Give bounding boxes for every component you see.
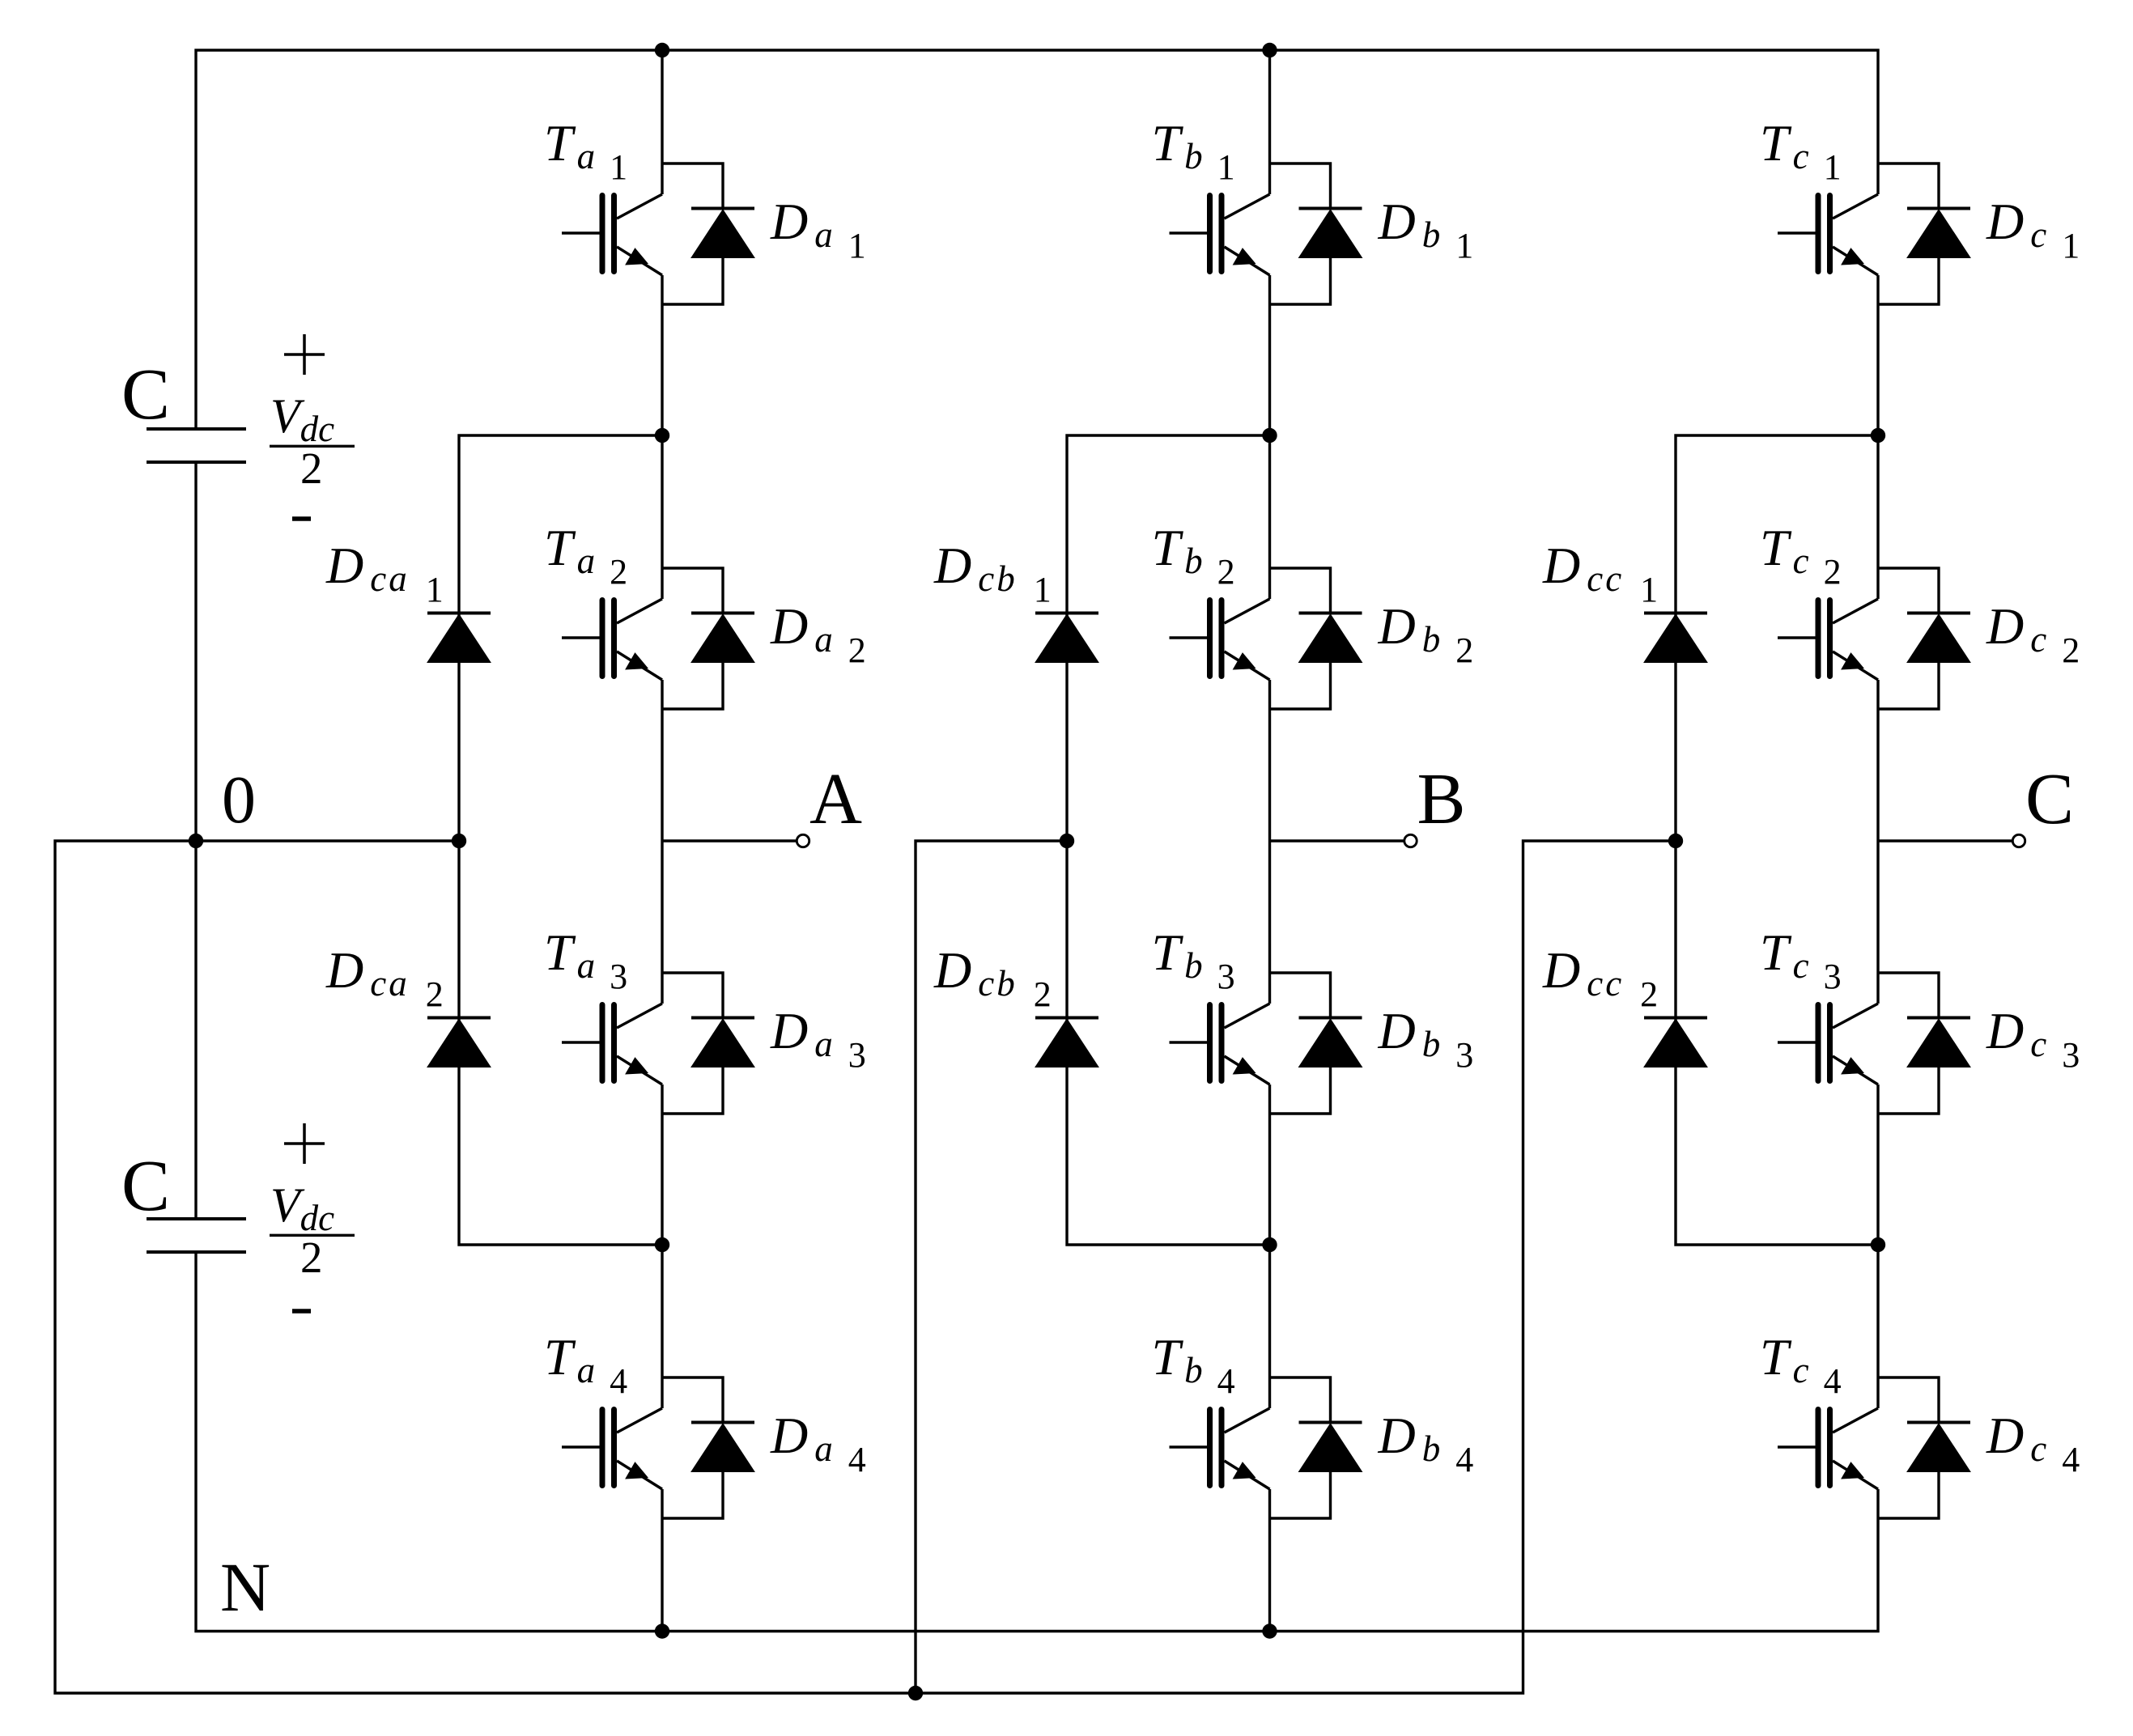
node: junction neutral stub / clamp c bbox=[1668, 834, 1683, 848]
transistor Tc1 (IGBT) bbox=[1778, 194, 1878, 275]
clamp diode Dca2 bbox=[427, 1018, 491, 1067]
label: minus sign (upper half voltage) bbox=[292, 516, 311, 521]
wire: antiparallel branch bottom Da2 bbox=[662, 663, 723, 710]
svg-text:2: 2 bbox=[300, 444, 323, 493]
wire: clamp branch phase c (to leg junctions) bbox=[1676, 435, 1878, 1245]
wire: negative DC bus (N rail with end risers) bbox=[196, 1252, 1878, 1632]
diode Db3 (antiparallel) bbox=[1299, 1018, 1362, 1067]
diode Dc2 (antiparallel) bbox=[1907, 613, 1970, 663]
wire: left bus between capacitors bbox=[194, 462, 197, 1219]
clamp diode Dcc1 bbox=[1644, 613, 1707, 663]
clamp diode Dcc2 bbox=[1644, 1018, 1707, 1067]
diode Dc4 (antiparallel) bbox=[1907, 1423, 1970, 1472]
wire: leg a Ta1 emitter to junction bbox=[661, 275, 663, 435]
label: plus sign (upper half voltage) bbox=[284, 334, 325, 375]
wire: antiparallel branch top Db2 bbox=[1270, 568, 1331, 613]
diode Da4 (antiparallel) bbox=[691, 1423, 754, 1472]
transistor Tb1 (IGBT) bbox=[1170, 194, 1270, 275]
transistor Tb4 (IGBT) bbox=[1170, 1408, 1270, 1489]
node: junction N rail / leg b bbox=[1262, 1624, 1277, 1638]
label: plus sign (lower half voltage) bbox=[284, 1123, 325, 1164]
svg-text:Dcb2: Dcb2 bbox=[933, 941, 1052, 1014]
svg-text:Db1: Db1 bbox=[1378, 193, 1474, 265]
capacitor C (lower) bbox=[147, 1219, 246, 1252]
diode Db1 (antiparallel) bbox=[1299, 209, 1362, 258]
svg-text:Ta1: Ta1 bbox=[544, 114, 627, 187]
svg-text:Dc3: Dc3 bbox=[1986, 1002, 2080, 1075]
svg-text:Dcc1: Dcc1 bbox=[1542, 537, 1658, 609]
wire: antiparallel branch top Da1 bbox=[662, 163, 723, 209]
transistor Ta2 (IGBT) bbox=[562, 599, 662, 680]
transistor Tc2 (IGBT) bbox=[1778, 599, 1878, 680]
terminal B (open circle) bbox=[1404, 834, 1417, 847]
svg-text:0: 0 bbox=[222, 762, 256, 838]
wire: leg a Ta3 emitter to junction bbox=[661, 1084, 663, 1245]
transistor Tc3 (IGBT) bbox=[1778, 1004, 1878, 1084]
wire: antiparallel branch bottom Db4 bbox=[1270, 1472, 1331, 1519]
wire: leg b junction to Tb4 bbox=[1268, 1245, 1271, 1408]
svg-text:Ta3: Ta3 bbox=[544, 923, 627, 996]
wire: leg b top rail to Tb1 bbox=[1268, 50, 1271, 194]
wire: positive DC bus (top rail with end drops) bbox=[196, 50, 1878, 429]
svg-text:Dca2: Dca2 bbox=[325, 941, 444, 1014]
diode Db2 (antiparallel) bbox=[1299, 613, 1362, 663]
transistor Tb3 (IGBT) bbox=[1170, 1004, 1270, 1084]
transistor Ta3 (IGBT) bbox=[562, 1004, 662, 1084]
svg-text:Ta2: Ta2 bbox=[544, 519, 627, 592]
svg-text:2: 2 bbox=[300, 1233, 323, 1282]
clamp diode Dca1 bbox=[427, 613, 491, 663]
wire: leg a top rail to Ta1 bbox=[661, 50, 663, 194]
wire: antiparallel branch bottom Db1 bbox=[1270, 258, 1331, 305]
diode Db4 (antiparallel) bbox=[1299, 1423, 1362, 1472]
wire: antiparallel branch top Dc1 bbox=[1878, 163, 1939, 209]
svg-text:Vdc: Vdc bbox=[270, 1178, 334, 1238]
wire: antiparallel branch top Da2 bbox=[662, 568, 723, 613]
wire: leg c Tc3 emitter to junction bbox=[1876, 1084, 1879, 1245]
wire: leg c Tc1 emitter to junction bbox=[1876, 275, 1879, 435]
node: junction top rail / leg b bbox=[1262, 43, 1277, 57]
svg-text:Ta4: Ta4 bbox=[544, 1328, 627, 1401]
diode Dc1 (antiparallel) bbox=[1907, 209, 1970, 258]
wire: leg b junction to Tb2 bbox=[1268, 435, 1271, 599]
node: junction neutral stub / clamp b bbox=[1060, 834, 1074, 848]
wire: antiparallel branch top Db3 bbox=[1270, 973, 1331, 1018]
svg-text:Tb4: Tb4 bbox=[1152, 1328, 1235, 1401]
wire: clamp branch phase b (to leg junctions) bbox=[1067, 435, 1270, 1245]
svg-text:Da1: Da1 bbox=[770, 193, 866, 265]
node: junction bottom neutral rail / riser b bbox=[908, 1686, 923, 1700]
wire: leg c junction to Tc2 bbox=[1876, 435, 1879, 599]
svg-text:A: A bbox=[809, 759, 862, 839]
terminal C (open circle) bbox=[2012, 834, 2025, 847]
wire: leg a junction to Ta2 bbox=[661, 435, 663, 599]
wire: antiparallel branch bottom Dc4 bbox=[1878, 1472, 1939, 1519]
wire: neutral bus 0 (mid rail, outer loop and riser to phase c clamp) bbox=[55, 841, 1676, 1693]
svg-text:C: C bbox=[121, 354, 170, 435]
node: junction top rail / leg a bbox=[655, 43, 669, 57]
svg-text:Dca1: Dca1 bbox=[325, 537, 444, 609]
wire: leg c junction to Tc4 bbox=[1876, 1245, 1879, 1408]
wire: leg a junction to Ta4 bbox=[661, 1245, 663, 1408]
wire: antiparallel branch top Dc2 bbox=[1878, 568, 1939, 613]
wire: antiparallel branch bottom Da3 bbox=[662, 1067, 723, 1114]
svg-text:Dcc2: Dcc2 bbox=[1542, 941, 1658, 1014]
clamp diode Dcb1 bbox=[1035, 613, 1098, 663]
svg-text:N: N bbox=[220, 1548, 270, 1626]
wire: leg b Tb3 emitter to junction bbox=[1268, 1084, 1271, 1245]
wire: antiparallel branch bottom Db3 bbox=[1270, 1067, 1331, 1114]
svg-text:C: C bbox=[2025, 759, 2074, 839]
wire: antiparallel branch bottom Da4 bbox=[662, 1472, 723, 1519]
svg-text:Da2: Da2 bbox=[770, 597, 866, 670]
wire: leg b Tb2 emitter to output bbox=[1268, 680, 1271, 841]
node: junction leg b / upper clamp wire bbox=[1262, 428, 1277, 443]
node: junction leg c / lower clamp wire bbox=[1871, 1237, 1885, 1252]
svg-text:Tc4: Tc4 bbox=[1760, 1328, 1842, 1401]
svg-text:Tc1: Tc1 bbox=[1760, 114, 1842, 187]
node: junction mid rail / clamp a bbox=[452, 834, 466, 848]
svg-text:Dcb1: Dcb1 bbox=[933, 537, 1052, 609]
wire: antiparallel branch bottom Dc2 bbox=[1878, 663, 1939, 710]
svg-text:Da3: Da3 bbox=[770, 1002, 866, 1075]
diode Da1 (antiparallel) bbox=[691, 209, 754, 258]
svg-text:B: B bbox=[1417, 759, 1466, 839]
label: Vdc/2 fraction (upper) bbox=[270, 389, 355, 493]
transistor Ta1 (IGBT) bbox=[562, 194, 662, 275]
wire: antiparallel branch top Da4 bbox=[662, 1377, 723, 1423]
wire: leg a Ta2 emitter to output bbox=[661, 680, 663, 841]
node: junction leg b / lower clamp wire bbox=[1262, 1237, 1277, 1252]
transistor Tb2 (IGBT) bbox=[1170, 599, 1270, 680]
svg-text:Tb2: Tb2 bbox=[1152, 519, 1235, 592]
svg-text:Tc3: Tc3 bbox=[1760, 923, 1842, 996]
wire: leg b Tb4 emitter to N rail bbox=[1268, 1489, 1271, 1632]
wire: antiparallel branch bottom Dc3 bbox=[1878, 1067, 1939, 1114]
label: Vdc/2 fraction (lower) bbox=[270, 1178, 355, 1282]
svg-text:Dc1: Dc1 bbox=[1986, 193, 2080, 265]
wire: leg a output to Ta3 bbox=[661, 841, 663, 1004]
svg-text:Da4: Da4 bbox=[770, 1407, 866, 1479]
node: junction mid rail / left bus bbox=[189, 834, 203, 848]
wire: antiparallel branch top Db1 bbox=[1270, 163, 1331, 209]
node: junction N rail / leg a bbox=[655, 1624, 669, 1638]
wire: antiparallel branch bottom Da1 bbox=[662, 258, 723, 305]
wire: output C bbox=[1878, 839, 2012, 842]
wire: antiparallel branch top Dc3 bbox=[1878, 973, 1939, 1018]
wire: antiparallel branch bottom Db2 bbox=[1270, 663, 1331, 710]
node: junction leg a / upper clamp wire bbox=[655, 428, 669, 443]
wire: output A bbox=[662, 839, 797, 842]
svg-text:Dc4: Dc4 bbox=[1986, 1407, 2080, 1479]
wire: leg c Tc2 emitter to output bbox=[1876, 680, 1879, 841]
wire: antiparallel branch top Da3 bbox=[662, 973, 723, 1018]
diode Dc3 (antiparallel) bbox=[1907, 1018, 1970, 1067]
clamp diode Dcb2 bbox=[1035, 1018, 1098, 1067]
transistor Tc4 (IGBT) bbox=[1778, 1408, 1878, 1489]
wire: clamp branch phase a (to leg junctions) bbox=[459, 435, 662, 1245]
wire: leg c output to Tc3 bbox=[1876, 841, 1879, 1004]
svg-text:Db3: Db3 bbox=[1378, 1002, 1474, 1075]
svg-text:Dc2: Dc2 bbox=[1986, 597, 2080, 670]
svg-text:Tb3: Tb3 bbox=[1152, 923, 1235, 996]
svg-text:Vdc: Vdc bbox=[270, 389, 334, 449]
capacitor C (upper) bbox=[147, 429, 246, 462]
svg-text:Db2: Db2 bbox=[1378, 597, 1474, 670]
wire: leg b Tb1 emitter to junction bbox=[1268, 275, 1271, 435]
wire: leg b output to Tb3 bbox=[1268, 841, 1271, 1004]
svg-text:Tb1: Tb1 bbox=[1152, 114, 1235, 187]
terminal A (open circle) bbox=[797, 834, 809, 847]
wire: output B bbox=[1270, 839, 1404, 842]
svg-text:Db4: Db4 bbox=[1378, 1407, 1474, 1479]
diode Da2 (antiparallel) bbox=[691, 613, 754, 663]
label: minus sign (lower half voltage) bbox=[292, 1309, 311, 1314]
node: junction leg c / upper clamp wire bbox=[1871, 428, 1885, 443]
transistor Ta4 (IGBT) bbox=[562, 1408, 662, 1489]
node: junction leg a / lower clamp wire bbox=[655, 1237, 669, 1252]
svg-text:C: C bbox=[121, 1146, 170, 1226]
wire: antiparallel branch top Dc4 bbox=[1878, 1377, 1939, 1423]
svg-text:Tc2: Tc2 bbox=[1760, 519, 1842, 592]
wire: leg a Ta4 emitter to N rail bbox=[661, 1489, 663, 1632]
wire: antiparallel branch top Db4 bbox=[1270, 1377, 1331, 1423]
wire: neutral riser to phase b clamp bbox=[916, 841, 1067, 1693]
wire: antiparallel branch bottom Dc1 bbox=[1878, 258, 1939, 305]
diode Da3 (antiparallel) bbox=[691, 1018, 754, 1067]
